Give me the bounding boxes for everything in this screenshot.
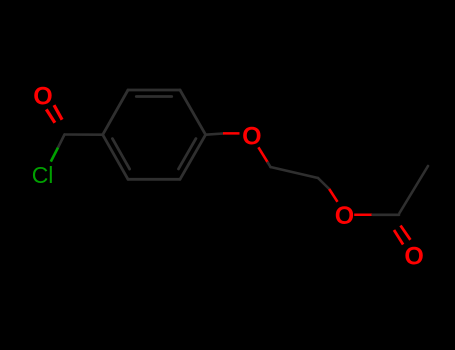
bond O2 to CH2 (C8), red part near oxygen (258, 147, 268, 162)
svg-text:Cl: Cl (32, 162, 54, 188)
svg-text:O: O (33, 83, 52, 111)
bond ring C4 to ether O2, gray half near ring (206, 134, 223, 135)
svg-text:O: O (404, 243, 423, 271)
benzene ring double bond inner line (bottom-right edge) (179, 139, 196, 169)
svg-text:O: O (242, 122, 261, 150)
svg-text:O: O (335, 202, 354, 230)
bond ring C4 to ether O2, red half near oxygen (223, 132, 240, 135)
bond O3 to ester carbonyl C10, gray half near carbon (373, 214, 399, 217)
acyl C7=O1 double bond, inner red line (54, 105, 62, 120)
bond CH2(C8)-CH2(C9) (271, 167, 319, 178)
benzene ring double bond inner line (top edge) (136, 95, 171, 98)
bond C10 to methyl CH3 (C11) (400, 166, 429, 213)
bond C9 to ester O3, gray half near carbon (318, 178, 329, 189)
benzene ring edge C2-C3 (top edge) (128, 89, 180, 92)
acyl C7=O1 double bond, outer red line (46, 109, 55, 122)
bond O2 to CH2 (C8), gray stub near carbon (268, 163, 271, 167)
benzene ring edge C1-C2 (left vertex to top-left) (103, 90, 128, 135)
benzene ring edge C3-C4 (top-right to right vertex) (180, 90, 206, 135)
bond O3 to ester carbonyl C10, red half near oxygen (354, 214, 372, 217)
benzene ring edge C5-C6 (bottom edge) (128, 178, 180, 181)
ester C10=O4 double bond, lower red line (394, 230, 403, 245)
bond ring C1 to acyl carbon C7 (65, 133, 103, 136)
bond C7-Cl green half near chlorine (51, 148, 58, 162)
benzene ring edge C6-C1 (bottom-left to left vertex) (103, 135, 128, 180)
bond C7-Cl gray half near carbon (58, 135, 65, 148)
benzene ring double bond inner line (bottom-left edge) (112, 139, 129, 169)
ester C10=O4 double bond, upper red line (401, 226, 411, 240)
benzene ring edge C4-C5 (right vertex to bottom-right) (180, 135, 206, 180)
bond C9 to ester O3, red half near oxygen (329, 189, 337, 202)
